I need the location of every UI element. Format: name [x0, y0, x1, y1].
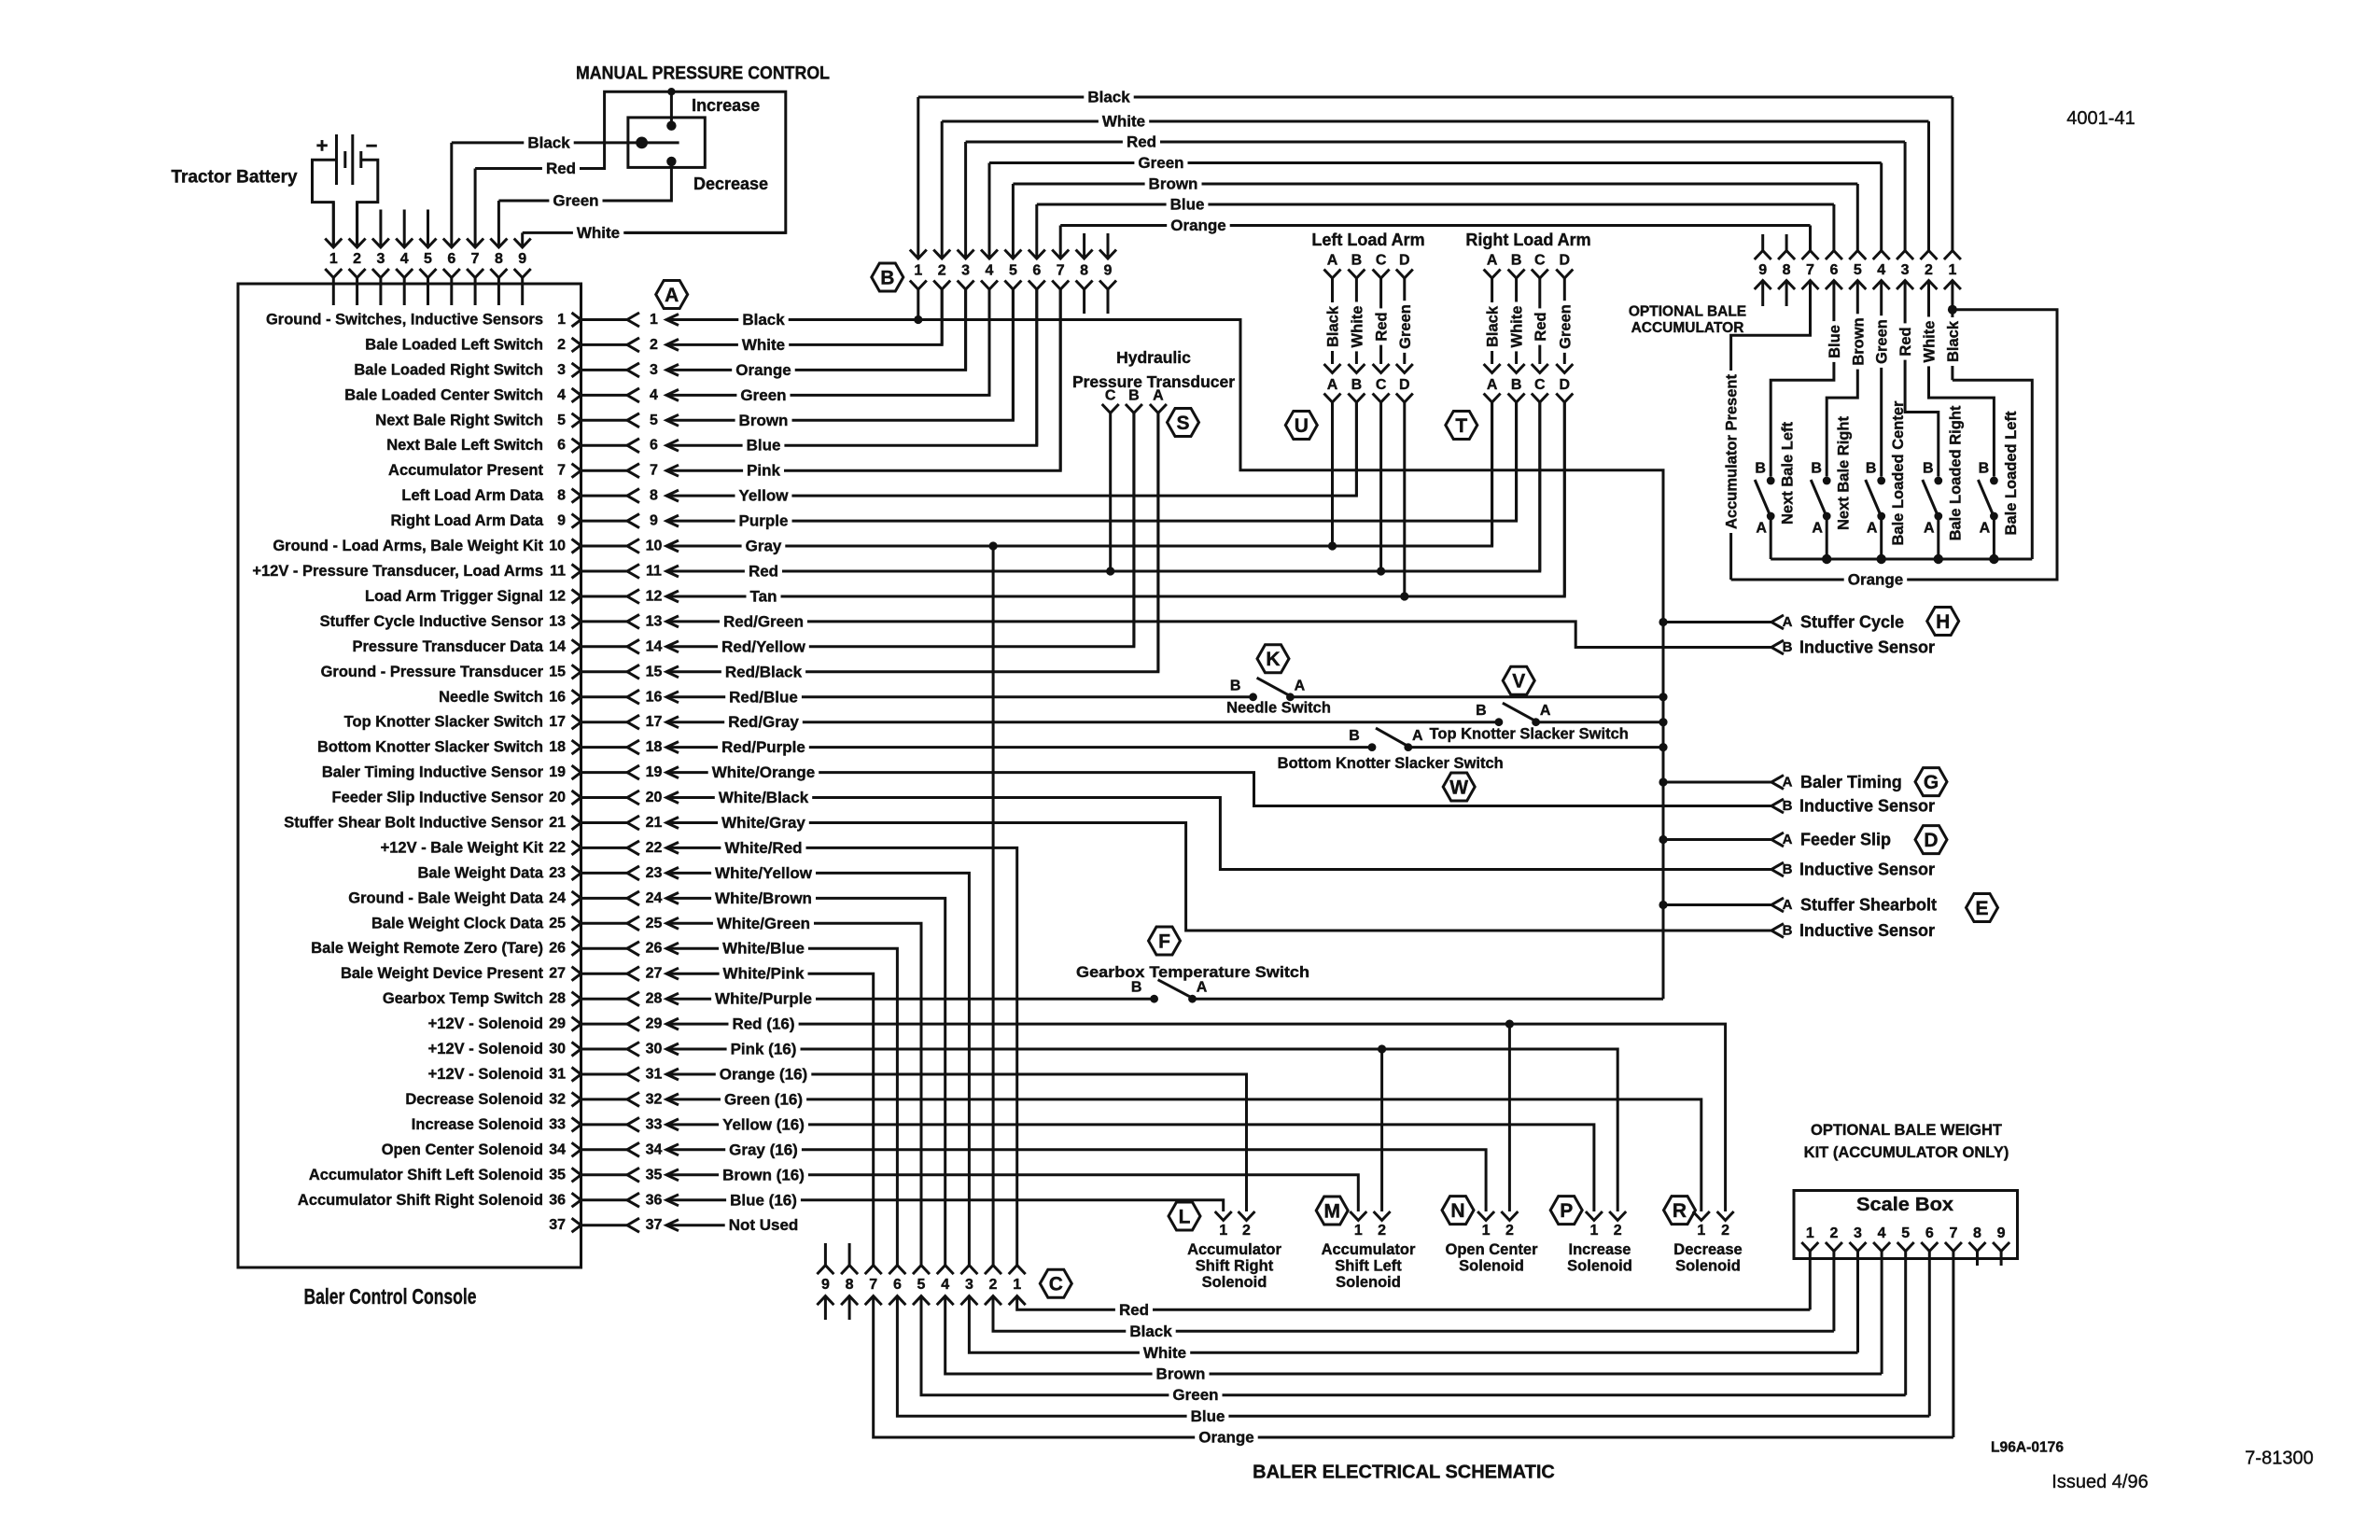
svg-text:Red: Red	[1127, 133, 1156, 151]
svg-text:1: 1	[1354, 1223, 1363, 1239]
svg-text:A: A	[1783, 614, 1793, 630]
svg-text:K: K	[1266, 649, 1280, 670]
svg-text:9: 9	[650, 513, 658, 529]
svg-text:B: B	[1476, 703, 1487, 719]
svg-text:34: 34	[549, 1141, 566, 1157]
svg-text:Brown: Brown	[1156, 1365, 1206, 1383]
svg-text:Gray: Gray	[746, 538, 782, 555]
svg-text:24: 24	[646, 890, 663, 906]
svg-text:T: T	[1455, 415, 1467, 437]
svg-text:U: U	[1295, 415, 1309, 437]
svg-text:34: 34	[646, 1141, 663, 1157]
accumulator switch Next Bale Right	[1823, 477, 1831, 485]
svg-text:Orange (16): Orange (16)	[720, 1066, 807, 1084]
svg-text:G: G	[1924, 772, 1939, 793]
svg-text:5: 5	[1009, 263, 1017, 279]
connector B pins	[917, 97, 919, 259]
wire MPC green branch	[629, 161, 672, 201]
svg-text:14: 14	[646, 638, 663, 654]
svg-text:Stuffer Shearbolt: Stuffer Shearbolt	[1800, 896, 1937, 915]
svg-text:18: 18	[549, 739, 566, 755]
sensor E A wire	[1663, 903, 1771, 906]
svg-text:7-81300: 7-81300	[2245, 1449, 2313, 1469]
node MPC top junction	[667, 88, 675, 95]
svg-text:25: 25	[646, 916, 663, 931]
svg-text:Right Load Arm: Right Load Arm	[1465, 231, 1590, 249]
svg-text:Solenoid: Solenoid	[1336, 1274, 1401, 1291]
svg-text:6: 6	[650, 438, 658, 454]
svg-text:A: A	[1980, 521, 1991, 537]
wire Black B1 to accumulator	[918, 96, 1953, 99]
svg-text:5: 5	[424, 251, 432, 267]
svg-text:8: 8	[650, 488, 658, 504]
svg-text:Increase Solenoid: Increase Solenoid	[412, 1116, 543, 1133]
svg-text:3: 3	[1854, 1225, 1862, 1241]
wire accumulator pin1 black ground	[1951, 281, 1953, 381]
switch K	[1249, 693, 1257, 701]
svg-text:5: 5	[1854, 262, 1862, 278]
svg-text:D: D	[1399, 253, 1410, 269]
svg-text:6: 6	[1829, 262, 1838, 278]
svg-text:Stuffer Shear Bolt Inductive S: Stuffer Shear Bolt Inductive Sensor	[284, 815, 543, 832]
svg-text:32: 32	[646, 1091, 663, 1107]
wire red to MPC	[475, 167, 604, 170]
svg-text:Bottom Knotter Slacker Switch: Bottom Knotter Slacker Switch	[1278, 755, 1504, 772]
svg-text:B: B	[1511, 253, 1522, 269]
svg-text:Blue: Blue	[1170, 196, 1205, 214]
svg-text:Green: Green	[1874, 319, 1891, 364]
svg-text:Solenoid: Solenoid	[1567, 1258, 1632, 1275]
svg-text:Pink: Pink	[747, 462, 780, 480]
svg-text:22: 22	[646, 840, 663, 856]
svg-text:3: 3	[557, 362, 566, 378]
svg-text:White/Black: White/Black	[719, 789, 809, 806]
svg-text:V: V	[1512, 671, 1525, 693]
accumulator switch Bale Loaded Left	[1990, 477, 1998, 485]
svg-text:B: B	[880, 268, 894, 289]
svg-text:3: 3	[650, 362, 658, 378]
svg-text:7: 7	[650, 463, 658, 479]
svg-text:16: 16	[549, 689, 566, 705]
svg-text:Bale Loaded Right: Bale Loaded Right	[1947, 405, 1964, 540]
svg-text:−: −	[366, 134, 378, 158]
svg-text:8: 8	[557, 488, 566, 504]
svg-text:Next Bale Right Switch: Next Bale Right Switch	[375, 412, 543, 428]
svg-text:A: A	[1783, 832, 1793, 847]
svg-text:+12V - Bale Weight Kit: +12V - Bale Weight Kit	[381, 839, 544, 856]
svg-text:F: F	[1158, 931, 1170, 953]
svg-text:Right Load Arm Data: Right Load Arm Data	[391, 512, 544, 529]
svg-text:Red: Red	[1374, 312, 1391, 341]
svg-text:Top Knotter Slacker Switch: Top Knotter Slacker Switch	[344, 714, 543, 731]
svg-text:Accumulator Shift Right Soleno: Accumulator Shift Right Solenoid	[298, 1192, 543, 1209]
node row1 to B1 junction	[914, 315, 922, 324]
svg-text:White/Yellow: White/Yellow	[715, 864, 813, 882]
sensor H A wire	[1663, 621, 1771, 623]
svg-text:Scale Box: Scale Box	[1856, 1195, 1953, 1215]
svg-text:Black: Black	[1325, 305, 1342, 347]
svg-text:White: White	[577, 224, 620, 242]
svg-text:Purple: Purple	[739, 512, 789, 530]
svg-text:2: 2	[1721, 1223, 1729, 1239]
svg-text:2: 2	[1925, 262, 1933, 278]
connector D hexagon	[1915, 826, 1947, 854]
svg-text:White: White	[1349, 306, 1365, 348]
wire MPC red loop	[585, 91, 786, 232]
svg-text:L96A-0176: L96A-0176	[1991, 1440, 2064, 1456]
wire black to MPC	[452, 141, 637, 144]
svg-text:Red: Red	[546, 160, 576, 177]
wire accumulator pin5 brown to next bale right	[1827, 281, 1857, 477]
svg-text:Bale Weight Device Present: Bale Weight Device Present	[341, 965, 544, 982]
sensor G A wire	[1663, 781, 1771, 784]
sensor E B wire	[1771, 924, 1784, 938]
svg-text:9: 9	[1997, 1225, 2006, 1241]
svg-text:14: 14	[549, 638, 566, 654]
svg-text:+12V - Solenoid: +12V - Solenoid	[428, 1015, 543, 1032]
svg-text:1: 1	[1589, 1223, 1598, 1239]
solenoid M Accumulator Shift Left Solenoid	[1316, 1197, 1348, 1225]
svg-text:A: A	[1540, 703, 1551, 719]
svg-text:Green: Green	[1557, 304, 1574, 349]
svg-text:9: 9	[821, 1277, 830, 1293]
connector C pins	[824, 1243, 827, 1266]
svg-text:3: 3	[376, 251, 385, 267]
svg-text:Ground - Load Arms, Bale Weigh: Ground - Load Arms, Bale Weight Kit	[273, 538, 543, 554]
svg-text:7: 7	[1806, 262, 1814, 278]
svg-text:1: 1	[329, 251, 338, 267]
svg-text:2: 2	[1242, 1223, 1251, 1239]
svg-text:1: 1	[650, 312, 658, 328]
svg-text:18: 18	[646, 739, 663, 755]
wire black to orange loop	[1731, 310, 2057, 580]
svg-text:Gray (16): Gray (16)	[729, 1141, 798, 1158]
svg-text:Brown: Brown	[739, 412, 789, 429]
svg-text:Red/Green: Red/Green	[723, 612, 804, 630]
svg-text:9: 9	[518, 251, 526, 267]
svg-text:15: 15	[549, 664, 566, 679]
svg-text:S: S	[1176, 413, 1189, 434]
svg-text:23: 23	[646, 865, 663, 881]
svg-text:28: 28	[646, 991, 663, 1007]
svg-text:A: A	[1295, 678, 1306, 693]
accumulator switch Next Bale Left	[1767, 477, 1775, 485]
svg-text:13: 13	[646, 613, 663, 629]
svg-text:8: 8	[1973, 1225, 1981, 1241]
svg-text:B: B	[1783, 639, 1793, 655]
connector C hexagon	[1040, 1269, 1071, 1297]
svg-text:+12V - Solenoid: +12V - Solenoid	[428, 1066, 543, 1083]
svg-text:Accumulator Present: Accumulator Present	[1724, 374, 1741, 529]
svg-text:Red/Yellow: Red/Yellow	[721, 637, 806, 655]
svg-text:Decrease: Decrease	[693, 175, 768, 193]
svg-text:2: 2	[1829, 1225, 1838, 1241]
svg-text:16: 16	[646, 689, 663, 705]
svg-text:Shift Left: Shift Left	[1335, 1258, 1402, 1275]
svg-text:7: 7	[1949, 1225, 1957, 1241]
svg-text:2: 2	[353, 251, 361, 267]
svg-text:Accumulator: Accumulator	[1187, 1241, 1281, 1258]
svg-text:B: B	[1128, 388, 1140, 404]
svg-text:Next Bale Right: Next Bale Right	[1836, 416, 1853, 530]
wire accumulator pin2 white to bale loaded left	[1929, 281, 1995, 477]
svg-text:A: A	[1487, 253, 1498, 269]
svg-text:Feeder Slip Inductive Sensor: Feeder Slip Inductive Sensor	[332, 790, 544, 806]
svg-text:6: 6	[557, 438, 566, 454]
svg-text:Needle Switch: Needle Switch	[1226, 700, 1331, 717]
svg-text:OPTIONAL BALE WEIGHT: OPTIONAL BALE WEIGHT	[1811, 1122, 2002, 1139]
svg-text:E: E	[1975, 898, 1988, 919]
svg-text:Blue: Blue	[1191, 1407, 1225, 1425]
svg-text:Bale Weight Remote Zero (Tare): Bale Weight Remote Zero (Tare)	[311, 940, 543, 957]
svg-text:White/Pink: White/Pink	[723, 965, 805, 983]
rotated pin color labels accumulator	[1826, 321, 1845, 362]
svg-text:Red (16): Red (16)	[732, 1015, 794, 1033]
svg-text:C: C	[1534, 377, 1546, 393]
wire White B2 to accumulator	[942, 120, 1928, 123]
svg-text:White: White	[1143, 1344, 1186, 1362]
svg-text:Solenoid: Solenoid	[1675, 1258, 1741, 1275]
svg-text:Red: Red	[749, 563, 778, 581]
svg-text:Green: Green	[1172, 1386, 1218, 1404]
svg-text:BALER ELECTRICAL SCHEMATIC: BALER ELECTRICAL SCHEMATIC	[1253, 1463, 1555, 1483]
svg-text:H: H	[1936, 611, 1950, 633]
svg-text:Left Load Arm: Left Load Arm	[1311, 231, 1424, 249]
svg-text:Black: Black	[1087, 89, 1130, 106]
svg-text:30: 30	[646, 1042, 663, 1057]
svg-text:8: 8	[495, 251, 503, 267]
svg-text:Black: Black	[1945, 320, 1962, 362]
svg-text:Black: Black	[1129, 1323, 1172, 1340]
svg-text:Red/Gray: Red/Gray	[728, 713, 799, 731]
svg-text:20: 20	[646, 790, 663, 805]
solenoid L Accumulator Shift Right Solenoid	[1169, 1202, 1200, 1230]
svg-text:A: A	[1924, 521, 1935, 537]
svg-text:1: 1	[557, 312, 566, 328]
svg-text:B: B	[1866, 461, 1877, 477]
svg-text:2: 2	[938, 263, 946, 279]
svg-text:Load Arm Trigger Signal: Load Arm Trigger Signal	[365, 588, 543, 605]
battery B1 plates	[335, 134, 338, 185]
svg-text:2: 2	[650, 337, 658, 353]
node transducer C +12V junction	[1106, 567, 1114, 575]
svg-text:Bale Weight Data: Bale Weight Data	[418, 864, 544, 881]
svg-text:24: 24	[549, 890, 566, 906]
svg-text:White/Purple: White/Purple	[715, 990, 812, 1008]
svg-text:Blue: Blue	[1827, 325, 1843, 358]
svg-text:9: 9	[1104, 263, 1113, 279]
svg-text:4: 4	[400, 251, 409, 267]
svg-text:25: 25	[549, 916, 566, 931]
svg-text:1: 1	[1948, 262, 1956, 278]
svg-text:27: 27	[646, 966, 663, 982]
svg-text:Bale Loaded Left: Bale Loaded Left	[2003, 411, 2020, 535]
svg-text:1: 1	[914, 263, 922, 279]
svg-text:Not Used: Not Used	[729, 1216, 799, 1234]
svg-text:Black: Black	[742, 311, 785, 329]
svg-text:Red: Red	[1119, 1301, 1149, 1319]
svg-text:A: A	[1327, 377, 1338, 393]
svg-text:17: 17	[549, 714, 566, 730]
node U-A gray junction	[1328, 541, 1337, 550]
wire Blue B6 to accumulator	[1037, 203, 1834, 206]
svg-text:Orange: Orange	[1170, 217, 1226, 234]
svg-text:6: 6	[893, 1277, 902, 1293]
connector E hexagon	[1967, 894, 1998, 922]
svg-text:White/Blue: White/Blue	[722, 940, 805, 958]
svg-text:Feeder Slip: Feeder Slip	[1800, 831, 1891, 849]
svg-text:4: 4	[1878, 1225, 1886, 1241]
wire accumulator pin7 orange / accumulator present	[1731, 281, 1811, 581]
svg-text:Orange: Orange	[1198, 1429, 1254, 1447]
svg-text:L: L	[1179, 1207, 1191, 1228]
svg-text:C: C	[1376, 253, 1387, 269]
svg-text:7: 7	[471, 251, 480, 267]
svg-text:Green (16): Green (16)	[724, 1090, 803, 1108]
svg-text:Green: Green	[553, 192, 598, 210]
svg-text:4001-41: 4001-41	[2066, 108, 2135, 129]
svg-text:1: 1	[1482, 1223, 1491, 1239]
svg-text:Green: Green	[1138, 154, 1183, 172]
svg-text:Baler Timing: Baler Timing	[1800, 773, 1902, 791]
svg-text:A: A	[1812, 521, 1823, 537]
svg-text:20: 20	[549, 790, 566, 805]
svg-text:21: 21	[549, 815, 566, 831]
node U-C +12V junction	[1377, 567, 1385, 575]
svg-text:Stuffer Cycle Inductive Sensor: Stuffer Cycle Inductive Sensor	[320, 613, 544, 630]
svg-text:Ground - Bale Weight Data: Ground - Bale Weight Data	[348, 889, 544, 906]
svg-text:Baler Timing Inductive Sensor: Baler Timing Inductive Sensor	[322, 764, 544, 781]
svg-text:B: B	[1783, 798, 1793, 814]
svg-text:Bale Loaded Center Switch: Bale Loaded Center Switch	[344, 386, 543, 403]
switch W	[1368, 743, 1377, 751]
svg-text:Accumulator Present: Accumulator Present	[388, 462, 543, 479]
node gray bus branch	[989, 541, 998, 550]
svg-text:Open Center: Open Center	[1445, 1241, 1538, 1258]
svg-text:30: 30	[549, 1042, 566, 1057]
svg-text:3: 3	[1901, 262, 1910, 278]
svg-text:35: 35	[646, 1167, 663, 1183]
svg-text:4: 4	[557, 387, 566, 403]
svg-text:Bale Weight Clock Data: Bale Weight Clock Data	[371, 915, 544, 931]
svg-text:Gearbox Temp Switch: Gearbox Temp Switch	[383, 990, 543, 1007]
svg-text:A: A	[665, 285, 679, 306]
svg-text:7: 7	[1057, 263, 1065, 279]
wire battery positive to pin1	[313, 160, 337, 247]
svg-text:Green: Green	[740, 386, 786, 404]
svg-text:C: C	[1534, 253, 1546, 269]
svg-text:A: A	[1327, 253, 1338, 269]
svg-text:26: 26	[646, 941, 663, 957]
svg-text:A: A	[1867, 521, 1878, 537]
svg-text:4: 4	[986, 263, 994, 279]
svg-text:9: 9	[1758, 262, 1767, 278]
solenoid R Decrease Solenoid	[1664, 1197, 1696, 1225]
svg-text:Black: Black	[1485, 305, 1502, 347]
svg-text:M: M	[1323, 1201, 1340, 1223]
svg-text:3: 3	[961, 263, 970, 279]
svg-text:Brown (16): Brown (16)	[722, 1166, 805, 1183]
svg-text:Brown: Brown	[1149, 175, 1198, 193]
svg-text:Inductive Sensor: Inductive Sensor	[1799, 797, 1935, 816]
svg-text:Issued 4/96: Issued 4/96	[2051, 1472, 2148, 1492]
svg-text:N: N	[1450, 1200, 1464, 1222]
MPC switch box	[628, 118, 705, 167]
svg-text:White/Brown: White/Brown	[715, 889, 812, 907]
svg-text:33: 33	[549, 1116, 566, 1132]
svg-text:Red: Red	[1533, 312, 1549, 341]
svg-text:A: A	[1756, 521, 1767, 537]
svg-text:B: B	[1349, 728, 1360, 744]
svg-text:8: 8	[1783, 262, 1791, 278]
svg-text:Hydraulic: Hydraulic	[1116, 348, 1191, 367]
svg-text:Solenoid: Solenoid	[1202, 1274, 1267, 1291]
svg-text:B: B	[1755, 461, 1766, 477]
baler control console box	[238, 284, 581, 1267]
svg-text:35: 35	[549, 1167, 566, 1183]
svg-text:Brown: Brown	[1850, 317, 1867, 365]
svg-text:Blue (16): Blue (16)	[730, 1191, 797, 1209]
svg-text:MANUAL PRESSURE CONTROL: MANUAL PRESSURE CONTROL	[576, 64, 830, 84]
svg-text:Pink (16): Pink (16)	[731, 1041, 797, 1058]
connector H hexagon	[1927, 608, 1959, 636]
node accumulator black junction	[1948, 305, 1957, 315]
solenoid N Open Center Solenoid	[1442, 1197, 1474, 1225]
svg-text:12: 12	[549, 589, 566, 605]
svg-text:Inductive Sensor: Inductive Sensor	[1799, 921, 1935, 940]
svg-text:13: 13	[549, 613, 566, 629]
svg-text:1: 1	[1806, 1225, 1814, 1241]
svg-text:Red/Blue: Red/Blue	[729, 688, 798, 706]
svg-text:27: 27	[549, 966, 566, 982]
accumulator switch Bale Loaded Center	[1877, 477, 1885, 485]
svg-text:31: 31	[646, 1067, 663, 1083]
svg-text:9: 9	[557, 513, 566, 529]
svg-text:Inductive Sensor: Inductive Sensor	[1799, 861, 1935, 879]
svg-text:B: B	[1131, 980, 1142, 996]
svg-text:28: 28	[549, 991, 566, 1007]
svg-text:6: 6	[1925, 1225, 1934, 1241]
contact increase	[666, 121, 676, 131]
svg-text:Yellow (16): Yellow (16)	[722, 1115, 805, 1133]
node solenoid +12V N2 branch	[1505, 1020, 1514, 1029]
svg-text:Bale Loaded Right Switch: Bale Loaded Right Switch	[354, 361, 543, 378]
svg-text:2: 2	[1378, 1223, 1386, 1239]
svg-text:Shift Right: Shift Right	[1196, 1258, 1274, 1275]
svg-text:B: B	[1923, 461, 1934, 477]
svg-text:5: 5	[650, 413, 658, 428]
svg-text:8: 8	[1080, 263, 1088, 279]
svg-text:10: 10	[549, 539, 566, 554]
svg-text:37: 37	[646, 1217, 663, 1233]
svg-text:D: D	[1924, 830, 1938, 851]
svg-text:3: 3	[965, 1277, 973, 1293]
svg-text:6: 6	[447, 251, 455, 267]
svg-text:11: 11	[550, 564, 566, 580]
svg-text:Accumulator Shift Left Solenoi: Accumulator Shift Left Solenoid	[309, 1167, 543, 1183]
svg-text:+12V - Solenoid: +12V - Solenoid	[428, 1041, 543, 1057]
svg-text:Next Bale Left Switch: Next Bale Left Switch	[386, 437, 543, 454]
svg-text:D: D	[1399, 377, 1410, 393]
svg-text:Bale Loaded Center: Bale Loaded Center	[1890, 400, 1907, 546]
wire gray ground to connector C pin2	[992, 546, 995, 1266]
svg-text:B: B	[1351, 253, 1363, 269]
svg-text:2: 2	[1614, 1223, 1622, 1239]
svg-text:A: A	[1412, 728, 1423, 744]
svg-text:26: 26	[549, 941, 566, 957]
svg-text:5: 5	[1901, 1225, 1910, 1241]
svg-text:4: 4	[1877, 262, 1885, 278]
